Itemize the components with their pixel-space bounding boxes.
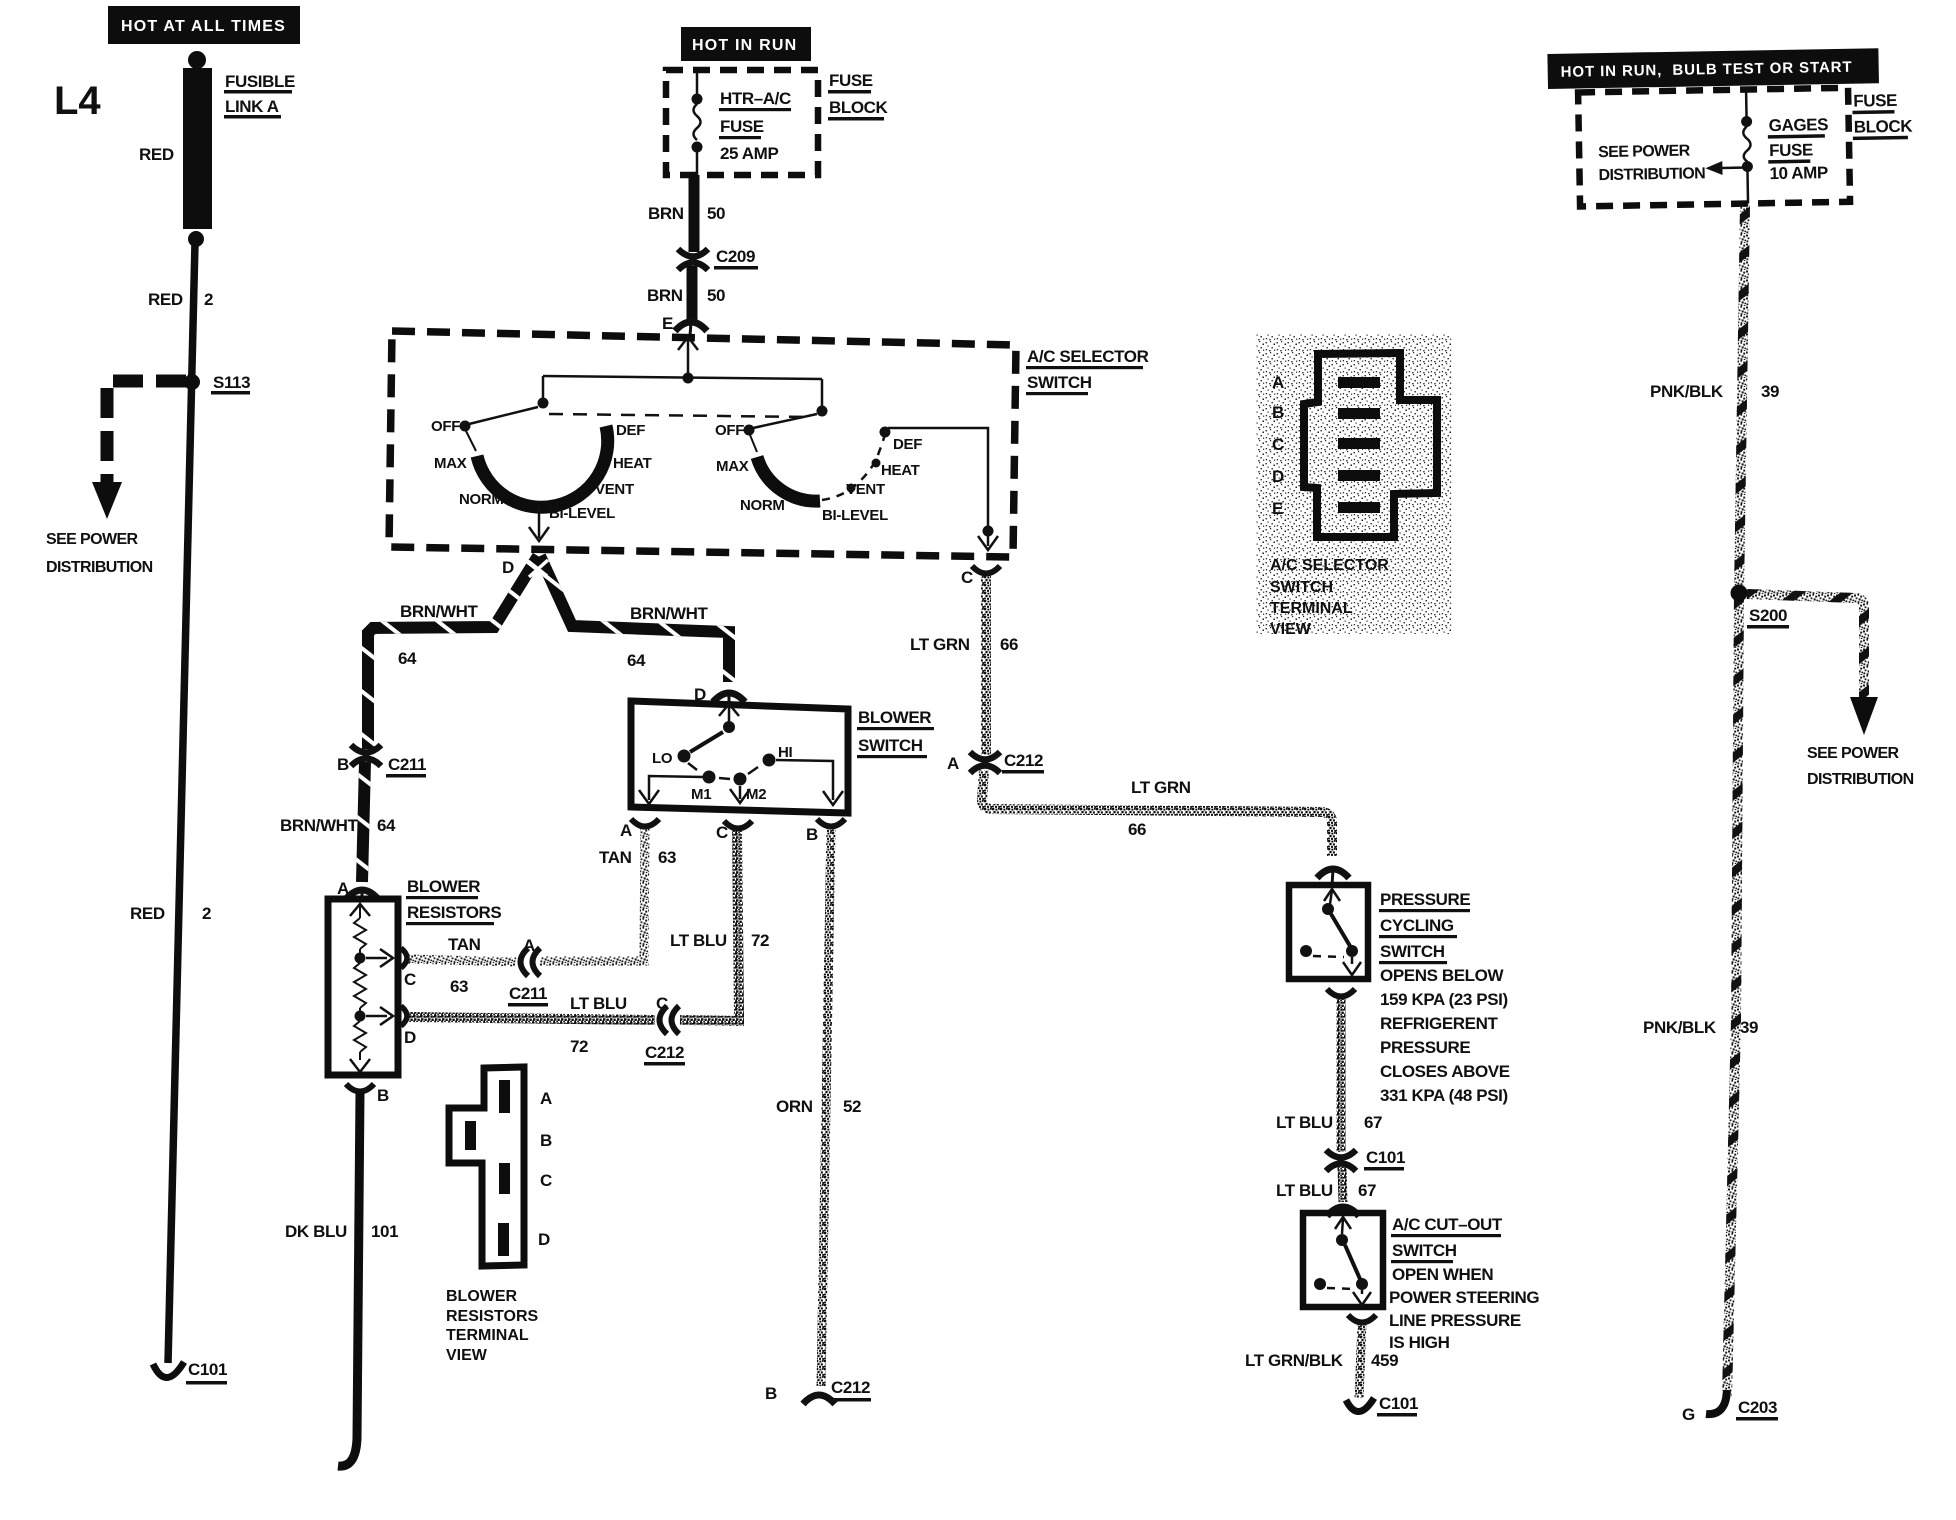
wire BRN/WHT left leg [368, 556, 538, 749]
svg-text:POWER STEERING: POWER STEERING [1389, 1288, 1539, 1307]
svg-text:C212: C212 [645, 1043, 684, 1062]
svg-text:HEAT: HEAT [613, 455, 652, 472]
entry arrow from E [678, 337, 698, 350]
svg-text:BRN: BRN [648, 204, 684, 223]
svg-text:NORM: NORM [740, 497, 785, 514]
connector C209 [678, 249, 708, 270]
svg-text:C101: C101 [1379, 1394, 1418, 1413]
svg-text:C: C [404, 970, 416, 989]
svg-text:A/C CUT–OUT: A/C CUT–OUT [1392, 1215, 1503, 1234]
svg-text:LO: LO [652, 750, 673, 767]
svg-text:E: E [662, 314, 673, 333]
svg-text:64: 64 [398, 649, 417, 668]
svg-text:LT GRN: LT GRN [910, 635, 970, 654]
svg-text:SWITCH: SWITCH [858, 736, 923, 755]
svg-text:459: 459 [1371, 1351, 1398, 1370]
svg-text:C212: C212 [1004, 751, 1043, 770]
pin B C212 at wire end [803, 1395, 835, 1404]
left deck pivot + wiper [538, 398, 549, 409]
svg-text:52: 52 [843, 1097, 861, 1116]
svg-text:HOT IN RUN: HOT IN RUN [692, 37, 797, 54]
svg-text:FUSE: FUSE [1853, 91, 1897, 111]
svg-text:S113: S113 [213, 373, 250, 392]
pin G connector C203 [1706, 1390, 1727, 1414]
right deck DEF feed to C [888, 428, 988, 526]
header HOT IN RUN BULB TEST OR START [1547, 48, 1879, 89]
svg-text:LT BLU: LT BLU [1276, 1113, 1333, 1132]
svg-text:BLOCK: BLOCK [1854, 117, 1914, 137]
svg-text:LT BLU: LT BLU [570, 994, 627, 1013]
svg-text:BRN/WHT: BRN/WHT [400, 602, 478, 621]
svg-text:LT BLU: LT BLU [1276, 1181, 1333, 1200]
blower switch interior [719, 704, 739, 716]
svg-text:67: 67 [1364, 1113, 1382, 1132]
connector outline [1304, 353, 1437, 537]
svg-text:50: 50 [707, 204, 725, 223]
svg-text:BRN/WHT: BRN/WHT [280, 816, 358, 835]
svg-text:E: E [1272, 499, 1283, 518]
svg-text:C101: C101 [188, 1360, 227, 1379]
svg-text:331 KPA (48 PSI): 331 KPA (48 PSI) [1380, 1086, 1508, 1105]
svg-text:L4: L4 [54, 79, 101, 123]
wire BRN 50 lower [687, 266, 698, 320]
svg-text:A: A [620, 821, 632, 840]
terminals A-E [1338, 377, 1380, 388]
svg-text:2: 2 [204, 290, 213, 309]
svg-text:LT GRN: LT GRN [1131, 778, 1191, 797]
splice S113 [184, 374, 200, 390]
svg-text:DISTRIBUTION: DISTRIBUTION [1598, 165, 1705, 184]
svg-text:D: D [538, 1230, 550, 1249]
wire LT BLU 67 [1327, 989, 1355, 997]
svg-text:PNK/BLK: PNK/BLK [1643, 1018, 1717, 1037]
svg-text:MAX: MAX [716, 458, 749, 475]
wire bus inside selector [543, 376, 822, 379]
svg-text:D: D [502, 558, 514, 577]
svg-text:C212: C212 [831, 1378, 870, 1397]
connector C212 pin A [970, 752, 1000, 773]
svg-text:LT GRN/BLK: LT GRN/BLK [1245, 1351, 1344, 1370]
svg-text:DEF: DEF [616, 422, 645, 439]
connector C101 (left wire end) [153, 1362, 184, 1378]
svg-text:VIEW: VIEW [446, 1347, 488, 1364]
svg-text:66: 66 [1128, 820, 1146, 839]
svg-text:DISTRIBUTION: DISTRIBUTION [46, 559, 153, 576]
svg-text:TAN: TAN [448, 935, 481, 954]
svg-text:MAX: MAX [434, 455, 467, 472]
resistor chain [350, 904, 370, 916]
svg-text:FUSE: FUSE [1769, 140, 1813, 160]
svg-text:C: C [1272, 435, 1284, 454]
svg-text:A: A [1272, 373, 1284, 392]
svg-text:SEE POWER: SEE POWER [46, 531, 139, 548]
left deck output arrow D [538, 506, 541, 538]
left deck contact arc [477, 426, 608, 507]
svg-text:HTR–A/C: HTR–A/C [720, 89, 791, 108]
svg-text:FUSE: FUSE [720, 117, 764, 136]
svg-text:PRESSURE: PRESSURE [1380, 1038, 1470, 1057]
svg-text:C: C [656, 994, 668, 1013]
svg-text:D: D [1272, 467, 1284, 486]
svg-text:NORM: NORM [459, 491, 504, 508]
svg-text:B: B [765, 1384, 777, 1403]
svg-text:RED: RED [139, 145, 174, 164]
svg-text:A/C SELECTOR: A/C SELECTOR [1027, 347, 1149, 366]
pin B below resistors [346, 1084, 374, 1092]
svg-text:BI-LEVEL: BI-LEVEL [822, 507, 888, 524]
svg-text:OFF: OFF [715, 422, 744, 439]
svg-text:A: A [947, 754, 959, 773]
svg-text:BRN/WHT: BRN/WHT [630, 604, 708, 623]
svg-text:DEF: DEF [893, 436, 922, 453]
svg-text:OFF: OFF [431, 418, 460, 435]
connector C101 end [1346, 1398, 1374, 1412]
svg-text:39: 39 [1740, 1018, 1758, 1037]
svg-text:25 AMP: 25 AMP [720, 144, 778, 163]
svg-text:SEE POWER: SEE POWER [1807, 745, 1900, 762]
pins A C B below blower switch [631, 819, 659, 827]
wire dashed branch to power distribution [107, 381, 186, 484]
svg-text:SEE POWER: SEE POWER [1598, 143, 1691, 162]
svg-text:72: 72 [751, 931, 769, 950]
branch to power distribution [1747, 594, 1864, 700]
svg-text:C209: C209 [716, 247, 755, 266]
svg-text:LINK A: LINK A [225, 97, 279, 116]
svg-text:BI-LEVEL: BI-LEVEL [549, 505, 615, 522]
svg-text:BLOWER: BLOWER [407, 877, 480, 896]
svg-text:B: B [806, 825, 818, 844]
svg-text:159 KPA (23 PSI): 159 KPA (23 PSI) [1380, 990, 1508, 1009]
wire DK BLU 101 [338, 1092, 360, 1466]
svg-text:63: 63 [658, 848, 676, 867]
svg-text:D: D [404, 1028, 416, 1047]
mechanical link dashed line [549, 414, 812, 417]
svg-text:B: B [1272, 403, 1284, 422]
svg-text:OPENS BELOW: OPENS BELOW [1380, 966, 1504, 985]
svg-text:SWITCH: SWITCH [1027, 373, 1092, 392]
svg-text:HOT AT ALL TIMES: HOT AT ALL TIMES [121, 18, 286, 35]
svg-text:72: 72 [570, 1037, 588, 1056]
wire PNK/BLK 39 [1727, 205, 1745, 1396]
svg-text:FUSE: FUSE [829, 71, 873, 90]
svg-text:A/C SELECTOR: A/C SELECTOR [1270, 557, 1389, 574]
svg-text:M1: M1 [691, 786, 711, 803]
svg-text:67: 67 [1358, 1181, 1376, 1200]
svg-text:IS HIGH: IS HIGH [1389, 1333, 1450, 1352]
right deck pivot + wiper [817, 406, 828, 417]
svg-text:VENT: VENT [595, 481, 634, 498]
svg-text:PNK/BLK: PNK/BLK [1650, 382, 1724, 401]
splice S200 [1731, 585, 1748, 602]
fuse block (dashed box) [666, 70, 818, 175]
svg-text:LINE PRESSURE: LINE PRESSURE [1389, 1311, 1521, 1330]
svg-text:101: 101 [371, 1222, 398, 1241]
svg-text:TERMINAL: TERMINAL [1270, 600, 1353, 617]
svg-text:66: 66 [1000, 635, 1018, 654]
svg-text:50: 50 [707, 286, 725, 305]
svg-text:BLOCK: BLOCK [829, 98, 889, 117]
svg-text:DK BLU: DK BLU [285, 1222, 347, 1241]
wire LT GRN/BLK 459 [1348, 1315, 1376, 1323]
svg-text:BLOWER: BLOWER [446, 1288, 518, 1305]
svg-text:C203: C203 [1738, 1398, 1777, 1417]
svg-text:PRESSURE: PRESSURE [1380, 890, 1470, 909]
svg-text:G: G [1682, 1405, 1695, 1424]
svg-text:C211: C211 [388, 755, 426, 774]
fuse block (dashed box right) [1578, 88, 1850, 207]
svg-text:VENT: VENT [846, 481, 885, 498]
taps C and D [366, 957, 387, 960]
fusible link A (component) [188, 51, 206, 69]
svg-text:2: 2 [202, 904, 211, 923]
svg-text:RED: RED [130, 904, 165, 923]
svg-text:HEAT: HEAT [881, 462, 920, 479]
svg-text:63: 63 [450, 977, 468, 996]
svg-text:B: B [337, 755, 349, 774]
svg-text:FUSIBLE: FUSIBLE [225, 72, 295, 91]
gages fuse 10 AMP [1745, 90, 1748, 117]
svg-text:ORN: ORN [776, 1097, 813, 1116]
svg-text:B: B [377, 1086, 389, 1105]
svg-text:DISTRIBUTION: DISTRIBUTION [1807, 771, 1914, 788]
svg-text:10 AMP: 10 AMP [1769, 163, 1828, 183]
svg-text:S200: S200 [1749, 606, 1787, 625]
svg-text:C101: C101 [1366, 1148, 1405, 1167]
wire BRN/WHT 64 lower [362, 762, 365, 882]
svg-text:B: B [540, 1131, 552, 1150]
wire BRN/WHT right leg [540, 556, 729, 682]
header HOT AT ALL TIMES [108, 6, 300, 44]
svg-text:OPEN WHEN: OPEN WHEN [1392, 1265, 1493, 1284]
svg-text:C: C [961, 568, 973, 587]
svg-text:TERMINAL: TERMINAL [446, 1327, 529, 1344]
svg-text:A: A [540, 1089, 552, 1108]
svg-text:VIEW: VIEW [1270, 621, 1312, 638]
svg-text:BLOWER: BLOWER [858, 708, 931, 727]
svg-text:SWITCH: SWITCH [1380, 942, 1445, 961]
connector C211 on BRN/WHT [351, 745, 381, 766]
svg-text:C211: C211 [509, 984, 547, 1003]
svg-text:CYCLING: CYCLING [1380, 916, 1454, 935]
svg-text:CLOSES ABOVE: CLOSES ABOVE [1380, 1062, 1510, 1081]
svg-text:RESISTORS: RESISTORS [446, 1308, 539, 1325]
HTR-A/C fuse 25 AMP [696, 70, 699, 94]
svg-text:C: C [540, 1171, 552, 1190]
svg-text:C: C [716, 823, 728, 842]
wire BRN 50 upper [689, 175, 700, 252]
header HOT IN RUN [681, 27, 811, 61]
right deck dashed arc + contacts [822, 434, 885, 500]
svg-text:TAN: TAN [599, 848, 632, 867]
svg-text:39: 39 [1761, 382, 1779, 401]
svg-text:A: A [523, 936, 535, 955]
svg-text:SWITCH: SWITCH [1270, 579, 1333, 596]
svg-text:64: 64 [377, 816, 396, 835]
svg-text:RED: RED [148, 290, 183, 309]
right deck contact arc (MAX..BI-LEVEL) [757, 457, 820, 501]
svg-text:BRN: BRN [647, 286, 683, 305]
connector C101 [1326, 1150, 1356, 1171]
svg-text:RESISTORS: RESISTORS [407, 903, 501, 922]
svg-text:HI: HI [778, 744, 793, 761]
svg-text:SWITCH: SWITCH [1392, 1241, 1457, 1260]
svg-text:LT BLU: LT BLU [670, 931, 727, 950]
svg-text:64: 64 [627, 651, 646, 670]
svg-text:REFRIGERENT: REFRIGERENT [1380, 1014, 1498, 1033]
svg-text:GAGES: GAGES [1769, 115, 1829, 135]
wire RED 2 vertical [168, 243, 195, 1363]
